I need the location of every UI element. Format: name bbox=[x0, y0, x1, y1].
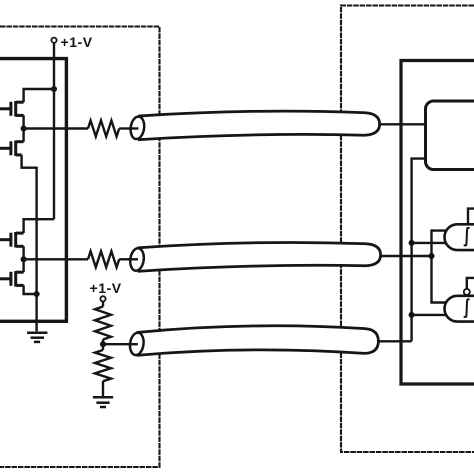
integrator U5 (inverting, with bubble) bbox=[445, 296, 474, 322]
transistor M2 (NMOS, upper inverter) bbox=[0, 141, 24, 156]
transistor M3 (PMOS, lower inverter) bbox=[0, 232, 24, 247]
wire: coax 1 to amplifier U3 bbox=[380, 123, 426, 125]
wire: M4 drain to output node 2 bbox=[22, 259, 24, 272]
wire: R2 to coax 2 bbox=[119, 258, 133, 260]
amplifier block U3 (top component, cut off) bbox=[426, 101, 474, 170]
wire: M4 source to ground bus bbox=[24, 285, 37, 294]
node: divider midpoint bbox=[100, 341, 106, 347]
wire: rail end to M3 source bbox=[24, 219, 54, 233]
wire: center conductor into coax 1 bbox=[131, 127, 138, 129]
svg-text:+1-V: +1-V bbox=[61, 34, 93, 50]
wire: reference bus up to U3 lower pin bbox=[412, 159, 426, 342]
coaxial cable 3 (body) bbox=[138, 326, 378, 355]
node: M4 source joins ground bus bbox=[34, 291, 40, 297]
wire: M2 drain to output node 1 bbox=[22, 129, 24, 142]
integral sign in U4 bbox=[464, 228, 470, 246]
wire: R1 to coax 1 bbox=[119, 127, 133, 129]
wire: divider node to coax 3 bbox=[103, 343, 132, 345]
coaxial cable 2 (open end) bbox=[129, 247, 145, 271]
transistor M4 (NMOS, lower inverter) bbox=[0, 271, 24, 286]
wire: divider node to R4 bbox=[102, 344, 104, 350]
coaxial cable 1 (open end) bbox=[129, 116, 145, 140]
wire: signal to U5 upper input bbox=[432, 256, 448, 303]
driver chip outline (left box) bbox=[0, 59, 66, 322]
node: coax2 signal junction bbox=[428, 253, 434, 259]
wire: M3 drain to output node 2 bbox=[22, 246, 24, 259]
coaxial cable 1 (body) bbox=[139, 111, 379, 140]
node: reference tap to U4 bbox=[409, 240, 415, 246]
wire: output 1 to resistor R1 bbox=[24, 127, 88, 129]
wire: output 2 to resistor R2 bbox=[24, 258, 88, 260]
wire: reference to U5 lower input bbox=[412, 314, 447, 316]
integral sign in U5 bbox=[464, 299, 470, 317]
wire: coax 2 to integrator inputs bbox=[381, 255, 432, 257]
resistor R4 (divider lower) bbox=[95, 350, 111, 381]
wire: rail to M1 source bbox=[24, 89, 54, 102]
wire: R4 to ground bbox=[102, 381, 104, 397]
wire: signal to U4 upper input bbox=[432, 231, 448, 256]
inversion bubble on U5 bbox=[464, 289, 470, 295]
wire: M1 drain to output node 1 bbox=[22, 115, 24, 128]
wire: R3 to divider node bbox=[102, 340, 104, 345]
svg-text:+1-V: +1-V bbox=[90, 280, 122, 296]
U4 top control lead bbox=[468, 209, 474, 225]
+1-V supply terminal (top) bbox=[51, 38, 56, 43]
receiver chip outline (right box) bbox=[401, 61, 474, 385]
+1-V supply terminal (divider) bbox=[100, 296, 105, 301]
wire: supply rail down into chip bbox=[53, 43, 55, 219]
wire: M2 source down to ground bus bbox=[22, 155, 37, 331]
coaxial cable 3 (open end) bbox=[129, 332, 145, 356]
resistor R3 (divider upper) bbox=[95, 307, 111, 340]
wire: reference to U4 lower input bbox=[412, 242, 447, 244]
node: output 2 junction bbox=[21, 256, 27, 262]
node: supply tap junction bbox=[51, 86, 57, 92]
U5 top control lead bbox=[467, 278, 474, 289]
wire: center conductor into coax 3 bbox=[130, 343, 138, 345]
coaxial cable 2 (body) bbox=[139, 242, 381, 271]
node: reference tap to U5 bbox=[409, 312, 415, 318]
enclosure box (left chamber boundary, dashed) bbox=[0, 27, 160, 468]
ground symbol (driver chip) bbox=[27, 333, 47, 342]
wire: terminal to R3 bbox=[102, 301, 104, 306]
ground symbol (divider) bbox=[93, 397, 113, 407]
resistor R1 bbox=[88, 121, 119, 137]
transistor M1 (PMOS, upper inverter) bbox=[0, 101, 24, 116]
enclosure box (right chamber boundary, dashed) bbox=[341, 6, 474, 453]
resistor R2 bbox=[88, 251, 119, 267]
wire: coax 3 to reference bus bbox=[378, 340, 411, 342]
wire: center conductor into coax 2 bbox=[131, 258, 138, 260]
integrator U4 bbox=[445, 224, 474, 250]
node: output 1 junction bbox=[21, 125, 27, 131]
